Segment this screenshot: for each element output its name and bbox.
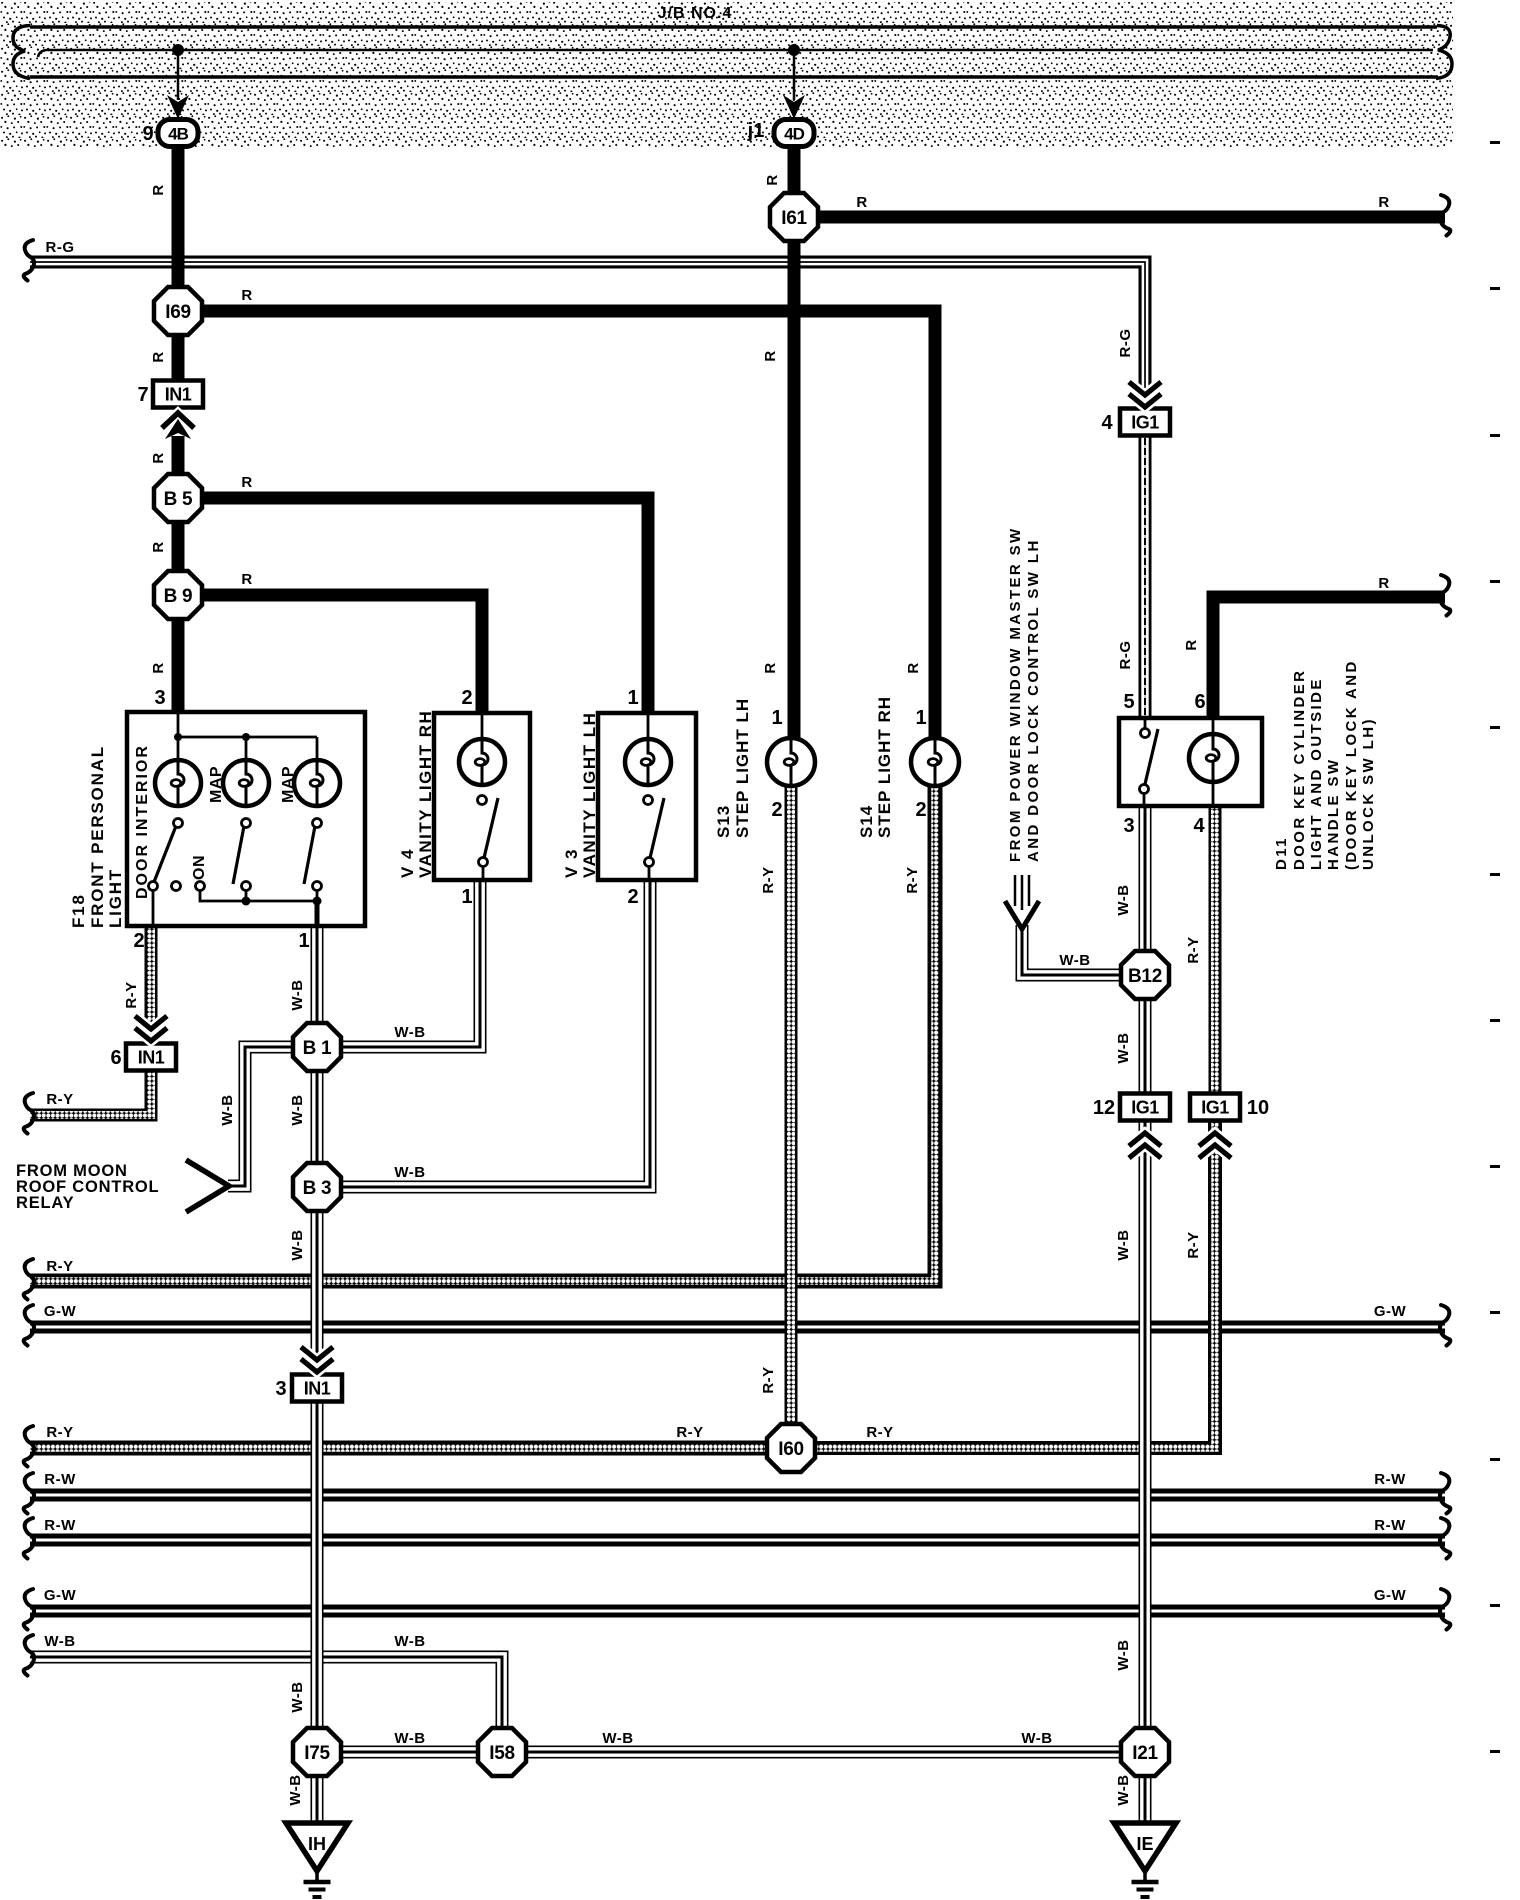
svg-text:R-Y: R-Y xyxy=(760,1366,777,1393)
wire R-Y from F18 pin2 down to IN1 pin6 xyxy=(145,926,158,1044)
connector B12 xyxy=(1121,951,1169,999)
wire break symbol left y262 xyxy=(24,240,34,281)
svg-text:G-W: G-W xyxy=(1374,1587,1407,1604)
bus wire G-W y1611 xyxy=(30,1607,1445,1615)
wire W-B from I21 down to ground IE xyxy=(1142,1752,1148,1825)
wire break symbol left y1448 xyxy=(24,1426,34,1467)
svg-text:R: R xyxy=(150,351,167,362)
arrow from power window master sw xyxy=(1005,875,1039,929)
svg-text:(DOOR KEY LOCK AND: (DOOR KEY LOCK AND xyxy=(1343,659,1360,870)
svg-text:LIGHT: LIGHT xyxy=(106,868,125,928)
svg-text:UNLOCK SW LH): UNLOCK SW LH) xyxy=(1360,717,1377,870)
connector IN1 pin6 xyxy=(126,1044,176,1071)
bus wire R-W y1540 xyxy=(30,1536,1445,1544)
svg-text:IN1: IN1 xyxy=(138,1048,165,1068)
wire W-B from power window master sw arrow to B12 xyxy=(1019,925,1121,978)
bus wire R-W y1495 xyxy=(30,1491,1445,1499)
connector arrow above IG1 pin4 xyxy=(1129,382,1161,407)
svg-text:I61: I61 xyxy=(781,208,807,229)
component F18 front personal light box xyxy=(127,712,365,926)
wire break symbol left y1281 xyxy=(24,1259,34,1300)
svg-text:B 9: B 9 xyxy=(164,586,193,607)
svg-text:R-Y: R-Y xyxy=(46,1091,73,1108)
svg-text:W-B: W-B xyxy=(289,979,306,1010)
svg-text:W-B: W-B xyxy=(1115,1639,1132,1670)
svg-text:3: 3 xyxy=(154,687,165,709)
wire break symbol right y1495 xyxy=(1440,1473,1450,1514)
wire R from B9 right turning down to V4 pin2 xyxy=(178,595,482,713)
connector I60 xyxy=(767,1424,815,1472)
svg-text:DOOR KEY CYLINDER: DOOR KEY CYLINDER xyxy=(1291,669,1308,870)
arrow from moon roof control relay xyxy=(186,1160,229,1212)
F18 common on-bus to pin1 xyxy=(200,890,322,926)
connector B9 xyxy=(154,571,202,619)
J/B NO.4 bus bar pipe xyxy=(13,26,1452,79)
svg-text:2: 2 xyxy=(627,886,638,908)
component V4 vanity light RH box xyxy=(434,713,530,880)
svg-text:G-W: G-W xyxy=(44,1303,77,1320)
svg-text:R: R xyxy=(856,194,867,211)
svg-text:B 3: B 3 xyxy=(303,1178,332,1199)
svg-text:R: R xyxy=(762,350,779,361)
wire break symbol left y1611 xyxy=(24,1589,34,1630)
svg-text:R-Y: R-Y xyxy=(1185,936,1202,963)
component V3 vanity light LH box xyxy=(598,713,696,880)
V3 bulb xyxy=(625,739,671,785)
svg-text:IN1: IN1 xyxy=(165,385,192,405)
svg-text:4: 4 xyxy=(1193,815,1205,837)
svg-text:B 1: B 1 xyxy=(303,1038,332,1059)
svg-text:6: 6 xyxy=(110,1047,121,1069)
connector I69 xyxy=(154,287,202,335)
wire R from 4B down through I69 to IN1 pin7 xyxy=(172,147,185,394)
wire W-B from B1 down to B3 xyxy=(314,1047,320,1187)
F18 map bulb 2 xyxy=(294,760,340,806)
svg-text:7: 7 xyxy=(137,384,148,406)
F18 door interior bulb xyxy=(155,760,201,806)
connector I61 xyxy=(770,193,818,241)
connector B3 xyxy=(293,1163,341,1211)
svg-text:R: R xyxy=(241,474,252,491)
connector arrow below IG1 pin12 xyxy=(1129,1133,1161,1158)
connector B5 xyxy=(154,474,202,522)
component D11 door key cylinder box xyxy=(1119,718,1262,806)
F18 switch 2 map xyxy=(233,819,251,891)
connector IN1 pin7 xyxy=(153,381,203,408)
svg-text:R-G: R-G xyxy=(1117,641,1134,670)
wire R from I61 right to edge xyxy=(794,211,1445,224)
F18 switch 1 door interior xyxy=(149,819,205,927)
connector arrow below IG1 pin10 xyxy=(1199,1133,1231,1158)
svg-text:DOOR INTERIOR: DOOR INTERIOR xyxy=(134,744,151,899)
svg-text:IH: IH xyxy=(308,1834,326,1854)
svg-text:R-W: R-W xyxy=(44,1471,76,1488)
svg-text:12: 12 xyxy=(1093,1097,1115,1119)
bus wire G-W y1327 xyxy=(30,1323,1445,1331)
svg-text:V 3: V 3 xyxy=(562,848,581,878)
svg-text:1: 1 xyxy=(461,886,472,908)
svg-text:RELAY: RELAY xyxy=(16,1194,74,1212)
wire break symbol left y1657 xyxy=(24,1635,34,1676)
svg-text:4D: 4D xyxy=(784,125,804,144)
connector I58 xyxy=(478,1728,526,1776)
svg-text:3: 3 xyxy=(1123,815,1134,837)
svg-text:W-B: W-B xyxy=(394,1633,425,1650)
wire W-B from I75 to I58 xyxy=(317,1749,502,1755)
svg-text:R: R xyxy=(1378,194,1389,211)
connector IG1 pin12 xyxy=(1120,1094,1170,1121)
connector IN1 pin3 xyxy=(292,1375,342,1402)
connector I21 xyxy=(1121,1728,1169,1776)
svg-text:MAP: MAP xyxy=(280,766,297,803)
svg-text:W-B: W-B xyxy=(1115,1229,1132,1260)
svg-text:W-B: W-B xyxy=(289,1094,306,1125)
svg-text:VANITY LIGHT RH: VANITY LIGHT RH xyxy=(416,710,435,878)
connector oval 4D xyxy=(774,120,814,147)
svg-text:R: R xyxy=(241,571,252,588)
svg-text:S14: S14 xyxy=(857,805,876,838)
svg-text:4B: 4B xyxy=(168,125,188,144)
wire R-Y from I60 right turning up to IG1 pin10 xyxy=(791,1121,1215,1448)
svg-text:J/B NO.4: J/B NO.4 xyxy=(658,5,733,22)
svg-text:I21: I21 xyxy=(1132,1743,1158,1764)
connector I75 xyxy=(293,1728,341,1776)
V4 switch xyxy=(478,796,499,879)
svg-text:V 4: V 4 xyxy=(398,848,417,878)
svg-text:FRONT PERSONAL: FRONT PERSONAL xyxy=(88,745,107,928)
svg-text:FROM POWER WINDOW MASTER SW: FROM POWER WINDOW MASTER SW xyxy=(1007,526,1024,862)
svg-text:4: 4 xyxy=(1101,412,1113,434)
ground IE xyxy=(1114,1823,1176,1897)
svg-text:W-B: W-B xyxy=(219,1094,236,1125)
svg-text:B 5: B 5 xyxy=(164,489,193,510)
svg-text:G-W: G-W xyxy=(1374,1303,1407,1320)
svg-text:W-B: W-B xyxy=(394,1024,425,1041)
wire R-Y from IN1 pin6 down and left to edge xyxy=(30,1071,151,1115)
wire W-B from D11 pin3 down to B12 xyxy=(1142,806,1148,975)
junction block J/B NO.4 stippled band xyxy=(0,2,1453,147)
svg-text:1: 1 xyxy=(915,707,926,729)
wire break symbol right y597 xyxy=(1440,575,1450,616)
wire W-B from B3 right up to V3 pin2 xyxy=(317,880,653,1190)
svg-text:W-B: W-B xyxy=(44,1633,75,1650)
bus wire W-B y1657 + turn down to I58 xyxy=(30,1654,505,1752)
wire break symbol right y1611 xyxy=(1440,1589,1450,1630)
V3 internal wire top xyxy=(647,715,650,760)
svg-text:R: R xyxy=(762,662,779,673)
connector arrow above IN1 pin6 xyxy=(135,1016,167,1041)
wire break symbol right y217 xyxy=(1440,195,1450,236)
V3 switch xyxy=(644,796,665,879)
wire R from B5 right turning down to V3 pin1 xyxy=(178,498,648,713)
svg-text:5: 5 xyxy=(1123,691,1134,713)
bus wire R-G horizontal + turn down to IG1 pin4 and D11 pin5 xyxy=(30,260,1147,410)
svg-text:MAP: MAP xyxy=(208,766,225,803)
wire drop from bus to 4B xyxy=(177,50,180,100)
svg-text:R: R xyxy=(150,662,167,673)
svg-text:R-G: R-G xyxy=(1117,329,1134,358)
bus wire R-Y y1448 left of I60 xyxy=(30,1441,791,1456)
connector arrow above IN1 pin3 xyxy=(301,1347,333,1372)
svg-text:R-W: R-W xyxy=(44,1517,76,1534)
svg-text:9: 9 xyxy=(142,123,153,145)
svg-text:R: R xyxy=(241,287,252,304)
svg-text:6: 6 xyxy=(1194,691,1205,713)
component S13 step light LH bulb xyxy=(767,738,815,786)
connector arrow below IN1 pin7 xyxy=(162,413,194,439)
svg-text:R-G: R-G xyxy=(46,239,75,256)
svg-text:j1: j1 xyxy=(747,120,765,142)
svg-text:1: 1 xyxy=(627,687,638,709)
svg-text:W-B: W-B xyxy=(289,1229,306,1260)
svg-text:R-Y: R-Y xyxy=(46,1424,73,1441)
connector IG1 pin10 xyxy=(1190,1094,1240,1121)
svg-text:W-B: W-B xyxy=(394,1730,425,1747)
wire drop from bus to 4D xyxy=(793,50,796,100)
svg-text:HANDLE SW: HANDLE SW xyxy=(1325,758,1342,870)
wire W-B from IG1 pin12 down to I21 xyxy=(1142,1121,1148,1752)
wire R-G from IG1 pin4 to D11 pin5 xyxy=(1143,435,1148,720)
margin tick marks xyxy=(1490,141,1500,1753)
svg-text:3: 3 xyxy=(275,1378,286,1400)
svg-text:1: 1 xyxy=(298,930,309,952)
svg-text:R-Y: R-Y xyxy=(46,1258,73,1275)
svg-text:I69: I69 xyxy=(165,302,191,323)
svg-text:R: R xyxy=(150,541,167,552)
connector IG1 pin4 xyxy=(1120,409,1170,436)
svg-text:F18: F18 xyxy=(69,893,88,928)
svg-text:S13: S13 xyxy=(714,805,733,838)
svg-text:2: 2 xyxy=(461,687,472,709)
wire W-B from I75 down to ground IH xyxy=(314,1752,320,1825)
wire W-B from B1 right up to V4 pin1 xyxy=(317,880,483,1050)
F18 pin3 internal wire and bus xyxy=(174,714,317,760)
svg-text:G-W: G-W xyxy=(44,1587,77,1604)
D11 internal wire right xyxy=(1212,720,1215,804)
wire W-B from B3 down to IN1 pin3 xyxy=(314,1187,320,1375)
svg-text:R: R xyxy=(905,662,922,673)
wire R-Y step light LH from S13 down to I60 xyxy=(785,786,798,1448)
wire R from I69 right turning down to S14 pin1 xyxy=(178,311,935,762)
svg-text:I75: I75 xyxy=(304,1743,330,1764)
svg-text:W-B: W-B xyxy=(1021,1730,1052,1747)
svg-text:R: R xyxy=(1378,575,1389,592)
wire break symbol left y1540 xyxy=(24,1518,34,1559)
svg-text:VANITY LIGHT LH: VANITY LIGHT LH xyxy=(580,712,599,878)
wire W-B from F18 pin1 down to B1 xyxy=(314,926,320,1047)
svg-text:IG1: IG1 xyxy=(1131,1098,1159,1118)
label FROM MOON ROOF CONTROL RELAY xyxy=(16,1162,159,1212)
wire break symbol right y1540 xyxy=(1440,1518,1450,1559)
connector B1 xyxy=(293,1023,341,1071)
svg-text:W-B: W-B xyxy=(1115,884,1132,915)
svg-text:R-Y: R-Y xyxy=(676,1424,703,1441)
svg-text:R-Y: R-Y xyxy=(866,1424,893,1441)
svg-text:D11: D11 xyxy=(1273,836,1290,870)
svg-text:W-B: W-B xyxy=(289,1681,306,1712)
svg-text:R: R xyxy=(764,174,781,185)
svg-text:LIGHT AND OUTSIDE: LIGHT AND OUTSIDE xyxy=(1308,677,1325,870)
svg-text:IN1: IN1 xyxy=(304,1379,331,1399)
F18 map bulb 1 xyxy=(223,760,269,806)
svg-text:ON: ON xyxy=(191,855,208,880)
wire W-B from I58 to I21 xyxy=(502,1749,1145,1755)
wire R from 4D down through I61 to S13 pin1 xyxy=(788,147,801,762)
svg-text:IG1: IG1 xyxy=(1201,1098,1229,1118)
wire break symbol left y1495 xyxy=(24,1473,34,1514)
svg-text:IG1: IG1 xyxy=(1131,413,1159,433)
junction dot on bus at x178 xyxy=(172,44,184,56)
V4 internal wire top xyxy=(481,715,484,760)
D11 bulb xyxy=(1189,734,1237,782)
svg-text:AND DOOR LOCK CONTROL SW LH: AND DOOR LOCK CONTROL SW LH xyxy=(1025,538,1042,862)
svg-text:B12: B12 xyxy=(1128,966,1162,987)
svg-text:W-B: W-B xyxy=(1115,1774,1132,1805)
svg-text:R-Y: R-Y xyxy=(760,866,777,893)
wire R from connector arrow down through B5 B9 to F18 pin3 xyxy=(172,436,185,712)
wire W-B from B1 left to moon roof relay arrow xyxy=(228,1044,317,1189)
svg-text:2: 2 xyxy=(133,930,144,952)
connector oval 4B xyxy=(158,120,198,147)
svg-text:R: R xyxy=(150,184,167,195)
svg-text:R-W: R-W xyxy=(1374,1471,1406,1488)
svg-text:R-Y: R-Y xyxy=(123,981,140,1008)
svg-text:R: R xyxy=(150,452,167,463)
svg-text:R-W: R-W xyxy=(1374,1517,1406,1534)
svg-text:W-B: W-B xyxy=(1115,1032,1132,1063)
svg-text:1: 1 xyxy=(771,707,782,729)
svg-text:R-Y: R-Y xyxy=(904,866,921,893)
svg-text:I58: I58 xyxy=(489,1743,515,1764)
svg-text:I60: I60 xyxy=(778,1439,804,1460)
ground IH xyxy=(286,1823,348,1897)
svg-text:W-B: W-B xyxy=(602,1730,633,1747)
wire break symbol right y1327 xyxy=(1440,1305,1450,1346)
svg-text:IE: IE xyxy=(1136,1834,1153,1854)
wire W-B from IN1 pin3 down to I75 xyxy=(314,1402,320,1752)
junction dot on bus at x794 xyxy=(788,44,800,56)
svg-text:W-B: W-B xyxy=(394,1164,425,1181)
svg-text:R: R xyxy=(1183,639,1200,650)
wire R-Y from D11 pin4 down to IG1 pin10 xyxy=(1209,806,1222,1094)
arrow into 4B xyxy=(167,95,189,119)
V4 bulb xyxy=(459,739,505,785)
bus wire R-Y y1281 + step light RH branch up xyxy=(30,786,935,1281)
wire R from D11 pin6 up and right to edge xyxy=(1213,597,1445,720)
svg-text:W-B: W-B xyxy=(287,1774,304,1805)
F18 switch 3 map xyxy=(304,819,322,891)
component S14 step light RH bulb xyxy=(911,738,959,786)
svg-text:2: 2 xyxy=(771,799,782,821)
svg-text:W-B: W-B xyxy=(1059,952,1090,969)
D11 key switch xyxy=(1140,720,1159,804)
wire W-B from B12 down to IG1 pin12 xyxy=(1142,975,1148,1094)
svg-text:STEP LIGHT RH: STEP LIGHT RH xyxy=(875,696,894,838)
wire break symbol left y1115 xyxy=(24,1093,34,1134)
svg-text:STEP LIGHT LH: STEP LIGHT LH xyxy=(733,698,752,838)
svg-text:R-Y: R-Y xyxy=(1185,1231,1202,1258)
svg-text:2: 2 xyxy=(915,799,926,821)
wire break symbol left y1327 xyxy=(24,1305,34,1346)
arrow into 4D xyxy=(783,95,805,119)
svg-text:10: 10 xyxy=(1247,1097,1269,1119)
